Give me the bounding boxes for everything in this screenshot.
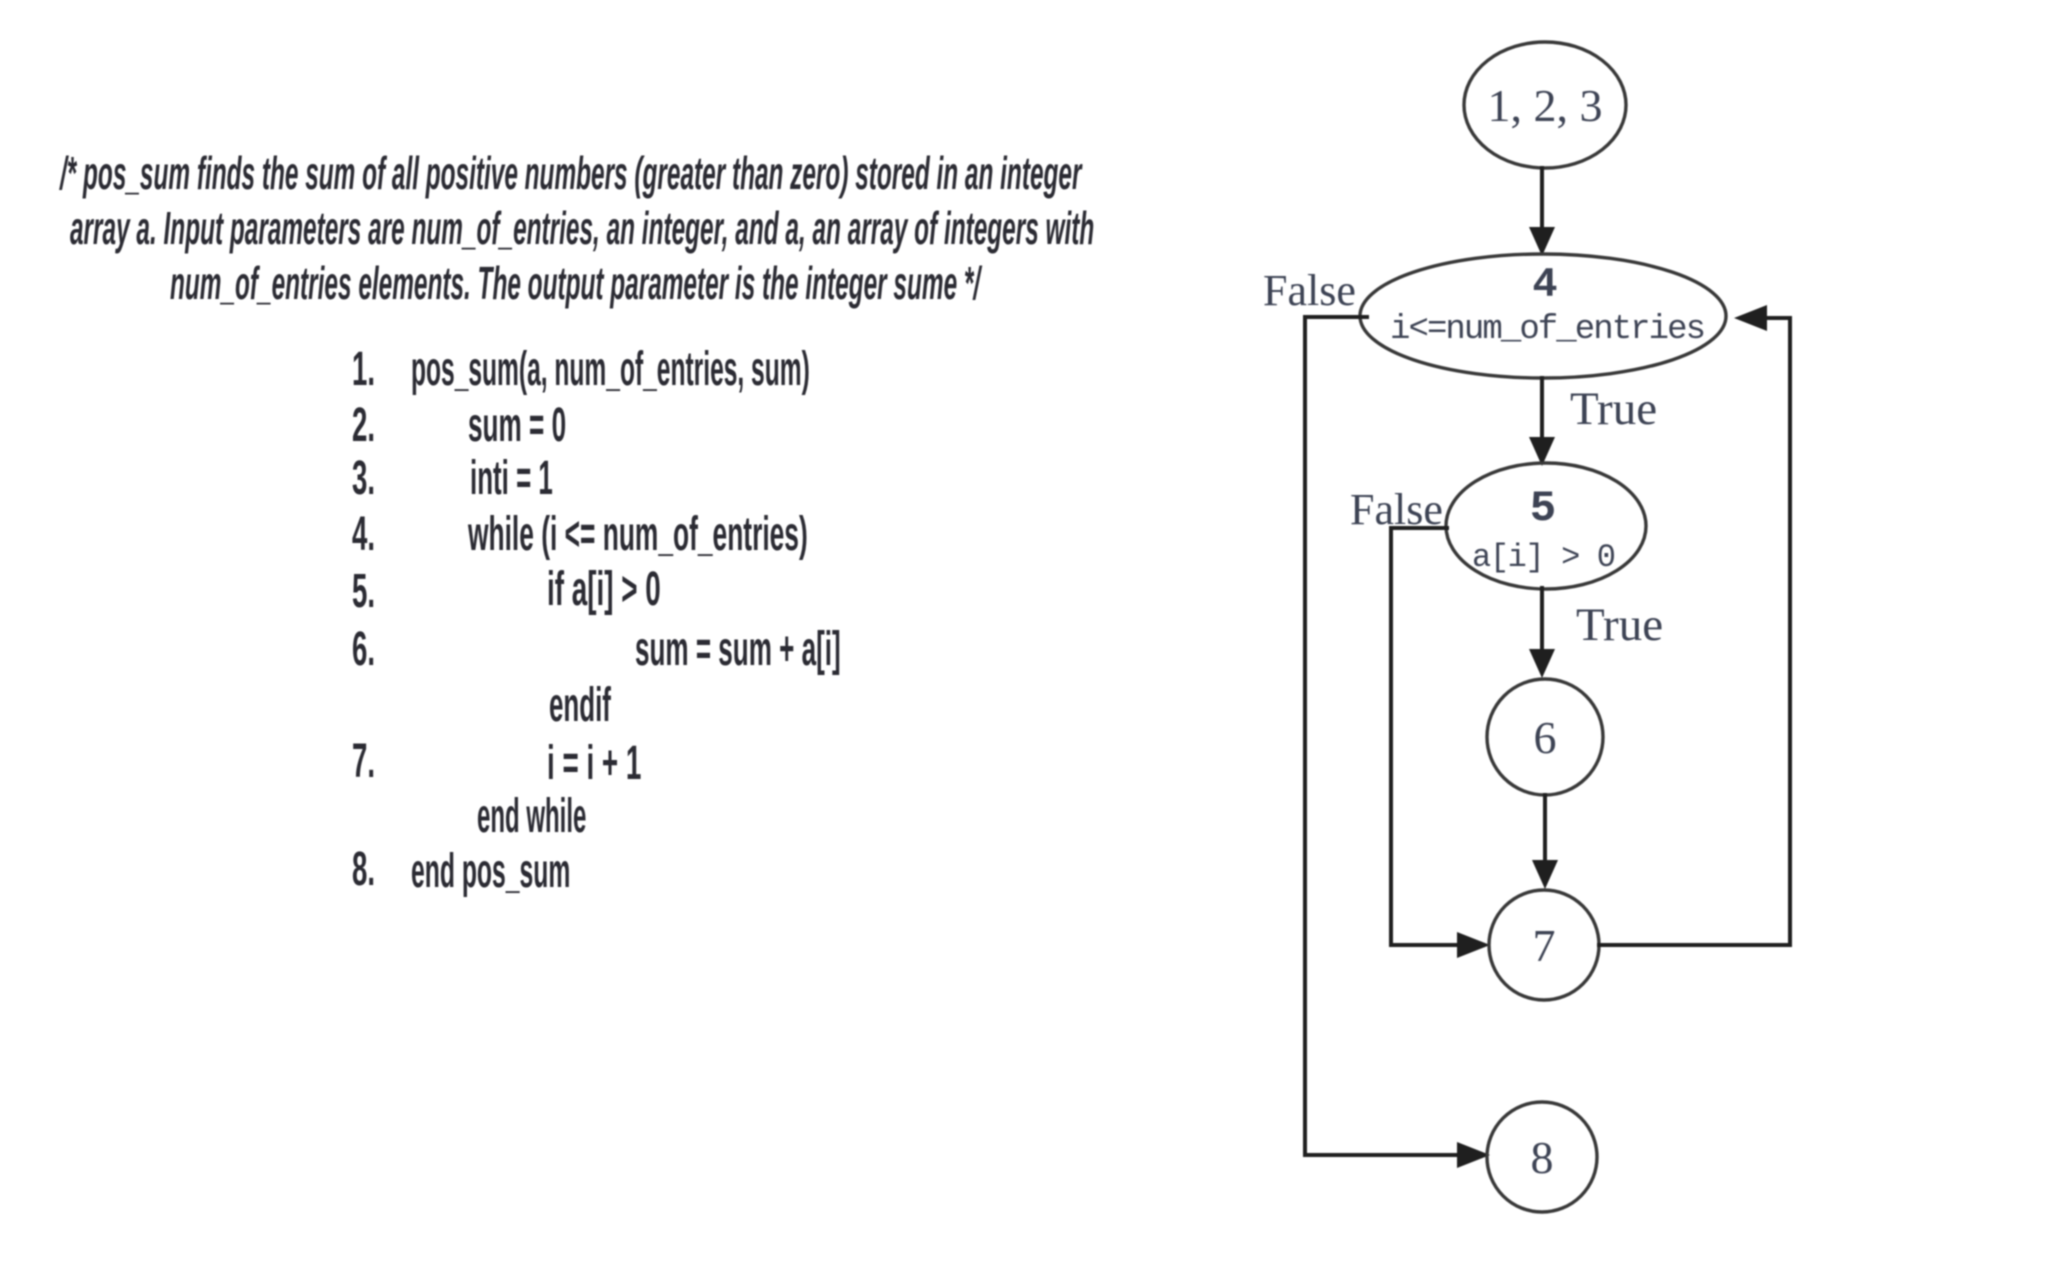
list number 6: [352, 622, 375, 677]
code line 6: [635, 622, 841, 677]
code line end while: [477, 789, 586, 844]
code line 8: [411, 844, 570, 899]
node 8 circle: [1487, 1102, 1597, 1212]
node 7 circle: [1489, 890, 1599, 1000]
wire true branch node4 to node5: [1529, 378, 1555, 466]
list number 2: [352, 398, 375, 453]
svg-text:True: True: [1570, 383, 1657, 435]
wire node123 to node 4: [1529, 168, 1555, 256]
wire true branch node5 to node6: [1529, 588, 1555, 678]
svg-text:6: 6: [1534, 712, 1557, 763]
list number 1: [352, 342, 375, 397]
svg-text:4: 4: [1532, 261, 1557, 309]
comment line 2: [70, 201, 1094, 255]
list number 3: [352, 451, 375, 506]
node 6 circle: [1487, 679, 1603, 795]
list number 7: [352, 734, 375, 789]
comment line 1: [60, 146, 1081, 200]
code line 2: [468, 398, 566, 453]
svg-text:a[i] > 0: a[i] > 0: [1472, 539, 1616, 576]
node 1,2,3 ellipse: [1464, 42, 1626, 168]
code line 5: [547, 562, 661, 617]
svg-text:False: False: [1263, 266, 1356, 315]
code line endif: [549, 678, 611, 733]
code line 3: [470, 451, 553, 506]
svg-text:True: True: [1576, 599, 1663, 651]
list number 4: [352, 507, 375, 562]
svg-text:7: 7: [1533, 920, 1556, 971]
comment line 3: [170, 256, 980, 310]
svg-text:1, 2, 3: 1, 2, 3: [1488, 80, 1603, 131]
list number 5: [352, 564, 375, 619]
code line 7: [547, 736, 641, 791]
node 5 ellipse: [1446, 463, 1646, 589]
svg-text:8: 8: [1531, 1132, 1554, 1183]
code line 4: [468, 507, 808, 562]
node 4 ellipse: [1360, 254, 1726, 378]
wire false branch node5 to node7: [1391, 528, 1490, 958]
svg-text:i<=num_of_entries: i<=num_of_entries: [1390, 311, 1706, 349]
code line 1: [411, 342, 810, 397]
wire node6 to node7: [1532, 795, 1558, 889]
wire loop node7 back to node4: [1599, 305, 1790, 945]
svg-text:5: 5: [1530, 484, 1556, 534]
wire false branch node4 to node8: [1305, 317, 1490, 1168]
list number 8: [352, 842, 375, 897]
